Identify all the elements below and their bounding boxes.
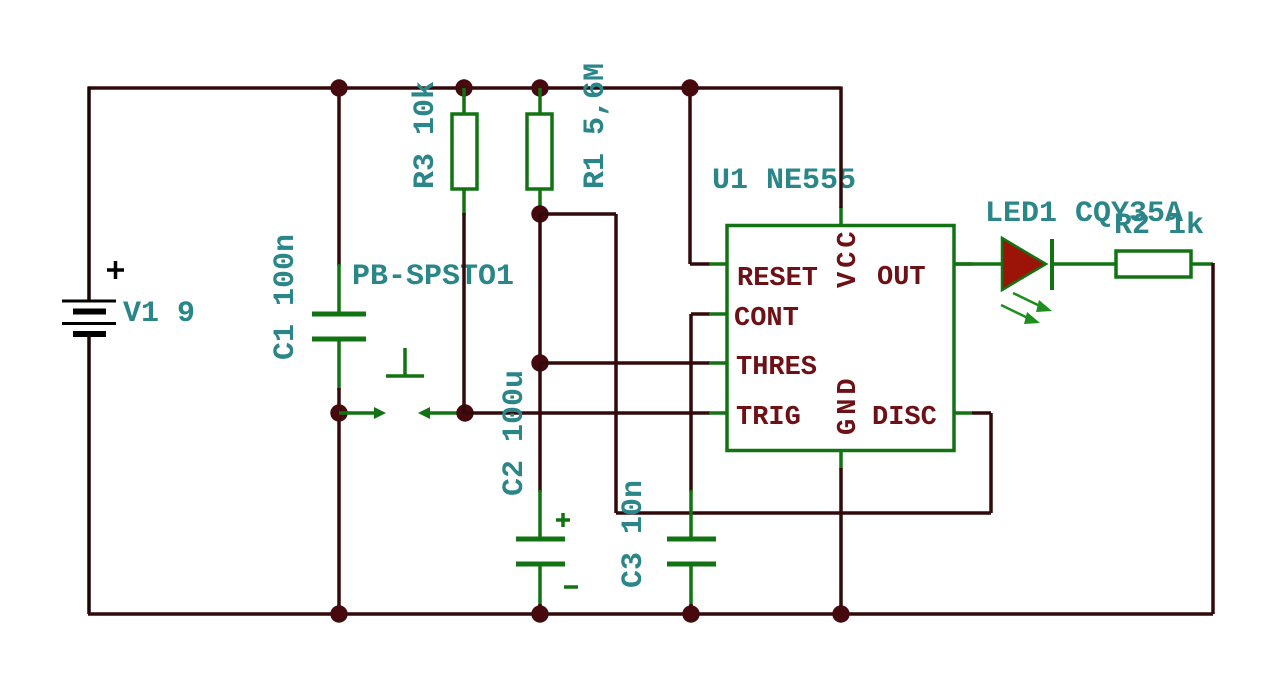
pin name CONT <box>734 304 799 334</box>
wire: R1 bottom node to DISC column <box>540 212 616 216</box>
pin stub TRIG <box>709 411 727 415</box>
wire: pushbutton left terminal to bottom rail <box>337 413 341 614</box>
label V1 9 <box>123 297 195 331</box>
LED light arrows <box>1001 293 1052 324</box>
pin name TRIG <box>736 403 801 433</box>
svg-text:VCC: VCC <box>834 227 864 288</box>
label PB-SPSTO1 <box>352 260 514 294</box>
pin stub OUT <box>954 262 972 266</box>
wire: top supply rail <box>88 86 841 90</box>
junction on top rail at R1 <box>531 79 548 96</box>
svg-text:C3 10n: C3 10n <box>617 480 651 588</box>
junction on top rail at R3 <box>455 79 472 96</box>
junction on top rail at C1 <box>330 79 347 96</box>
resistor R3 <box>452 88 477 215</box>
pin name OUT <box>877 263 926 293</box>
resistor R2 <box>1116 251 1191 277</box>
wire: CONT down to C3 <box>689 314 693 492</box>
pin name RESET <box>737 264 818 294</box>
resistor R1 <box>527 88 552 215</box>
svg-text:C1 100n: C1 100n <box>269 234 303 360</box>
op-amp U1 NE555 box <box>727 226 954 451</box>
pin name VCC (rotated) <box>834 227 864 288</box>
wire: left rail upper (battery + to top rail) <box>87 87 91 302</box>
wire: THRES pin wire <box>540 361 710 365</box>
capacitor C1 <box>312 264 366 390</box>
wire: R3 bottom to TRIG node <box>462 213 466 413</box>
wire: RESET column from top rail <box>688 88 692 264</box>
pin name GND (rotated) <box>834 374 864 435</box>
junction at bottom rail below C1 <box>330 605 347 622</box>
label C2 100u (rotated) <box>498 370 532 496</box>
label R2 1k <box>1114 209 1204 243</box>
wire: C1 column upper (top rail to C1) <box>337 88 341 266</box>
svg-text:R2 1k: R2 1k <box>1114 209 1204 243</box>
battery plus sign <box>107 261 124 279</box>
wire: DISC column vertical <box>614 214 618 513</box>
svg-text:THRES: THRES <box>736 353 817 383</box>
pin stub GND <box>839 451 843 469</box>
wire: R2 to right rail <box>1190 262 1213 266</box>
wire: RESET pin wire <box>690 262 710 266</box>
svg-text:OUT: OUT <box>877 263 926 293</box>
wire: R1 node down to THRES node <box>538 214 542 363</box>
wire: DISC horizontal run <box>616 511 991 515</box>
pin stub RESET <box>709 262 727 266</box>
svg-text:U1 NE555: U1 NE555 <box>712 164 856 198</box>
label R3 10k (rotated) <box>409 81 443 189</box>
svg-text:PB-SPSTO1: PB-SPSTO1 <box>352 260 514 294</box>
junction bottom rail at C3 <box>682 605 699 622</box>
LED LED1 <box>1002 238 1052 290</box>
wire: DISC pin wire <box>972 411 991 415</box>
junction pushbutton right terminal <box>456 404 473 421</box>
label U1 NE555 <box>712 164 856 198</box>
svg-text:R1 5,6M: R1 5,6M <box>579 63 613 189</box>
label LED1 CQY35A <box>985 197 1183 231</box>
battery V1 <box>62 301 116 334</box>
wire: C3 bottom to bottom rail <box>689 604 693 614</box>
wire: VCC column from top rail to IC <box>839 87 843 209</box>
pin stub CONT <box>709 312 727 316</box>
svg-text:CONT: CONT <box>734 304 799 334</box>
label C3 10n (rotated) <box>617 480 651 588</box>
junction THRES node <box>531 354 548 371</box>
svg-text:DISC: DISC <box>872 403 937 433</box>
capacitor C3 <box>667 490 716 606</box>
capacitor C2 <box>516 490 565 606</box>
pushbutton PB-SPST01 <box>339 348 465 419</box>
svg-text:RESET: RESET <box>737 264 818 294</box>
wire: right rail down to bottom rail <box>1211 263 1215 614</box>
wire: C1 to pushbutton terminal <box>337 388 341 413</box>
pin stub VCC <box>839 207 843 225</box>
wire: GND pin to bottom rail <box>839 468 843 614</box>
label R1 5,6M (rotated) <box>579 63 613 189</box>
pin stub THRES <box>709 361 727 365</box>
wire: bottom ground rail <box>88 612 1213 616</box>
svg-text:GND: GND <box>834 374 864 435</box>
pin name THRES <box>736 353 817 383</box>
wire: OUT pin to LED anode <box>954 262 1003 266</box>
junction R1 bottom node <box>531 205 548 222</box>
junction bottom rail at C2 <box>531 605 548 622</box>
label C1 100n (rotated) <box>269 234 303 360</box>
capacitor C2 plus sign <box>556 513 570 527</box>
junction bottom rail at GND <box>832 605 849 622</box>
junction top rail at RESET column <box>681 79 698 96</box>
wire: TRIG pin wire <box>465 411 710 415</box>
svg-text:C2 100u: C2 100u <box>498 370 532 496</box>
wire: THRES node down to C2 <box>538 363 542 492</box>
wire: LED cathode to R2 <box>1052 262 1117 266</box>
wire: DISC riser <box>989 413 993 513</box>
pin stub DISC <box>954 411 972 415</box>
wire: left rail lower (battery - to bottom rail) <box>87 334 91 614</box>
capacitor C2 minus sign <box>564 585 578 589</box>
svg-text:R3 10k: R3 10k <box>409 81 443 189</box>
wire: CONT pin wire <box>691 312 710 316</box>
wire: C2 bottom to bottom rail <box>538 604 542 614</box>
pin name DISC <box>872 403 937 433</box>
junction pushbutton left terminal <box>330 404 347 421</box>
svg-text:TRIG: TRIG <box>736 403 801 433</box>
svg-text:V1 9: V1 9 <box>123 297 195 331</box>
